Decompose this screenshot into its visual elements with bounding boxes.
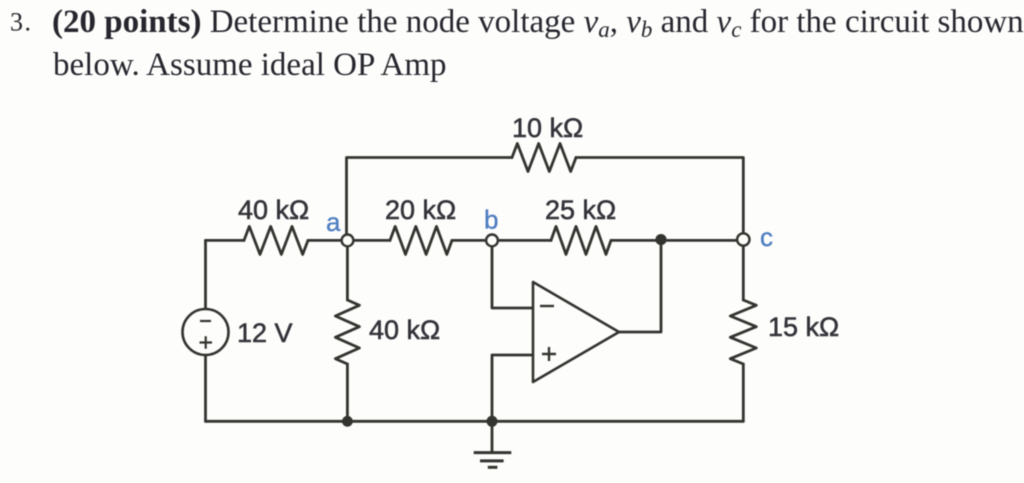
op-amp plus input sign: [542, 347, 556, 361]
wire 20k to 25k: [452, 239, 551, 242]
wire bottom rail: [206, 420, 744, 423]
svg-text:10 kΩ: 10 kΩ: [512, 113, 583, 143]
resistor R 15k vertical zigzag: [730, 300, 756, 364]
wire node a branch down: [346, 240, 349, 300]
junction dot (output / c row): [655, 234, 666, 245]
node c open circle: [737, 233, 749, 245]
wire op-amp plus input to ground rail: [492, 355, 533, 421]
resistor R 40k vertical zigzag: [335, 300, 359, 364]
wire node b down to op-amp minus input: [492, 240, 533, 308]
op-amp U1 triangle: [533, 282, 619, 382]
svg-text:c: c: [760, 222, 773, 252]
svg-text:15 kΩ: 15 kΩ: [768, 312, 839, 342]
wire right rail bottom: [742, 364, 745, 421]
svg-text:(20 points) Determine the node: (20 points) Determine the node voltage v…: [52, 4, 1024, 42]
wire main row left segment: [206, 239, 245, 242]
voltage source minus sign: [200, 320, 211, 322]
junction dot (node a bottom): [342, 416, 353, 427]
wire top loop with resistor 10k gap: [347, 158, 513, 241]
wire top right + right rail down to 15k: [576, 158, 743, 301]
wire a to 20k: [308, 239, 390, 242]
svg-text:40 kΩ: 40 kΩ: [238, 195, 309, 225]
svg-text:12 V: 12 V: [237, 318, 293, 348]
node b open circle: [486, 235, 498, 247]
resistor R 10k zigzag: [512, 144, 576, 172]
resistor R 25k zigzag: [551, 226, 611, 254]
resistor R 20k zigzag: [390, 226, 452, 254]
ground stem: [491, 421, 494, 452]
voltage source V1 12V circle: [183, 309, 229, 355]
svg-text:40 kΩ: 40 kΩ: [369, 315, 440, 345]
svg-text:a: a: [326, 207, 341, 237]
svg-text:b: b: [484, 205, 498, 235]
svg-text:20 kΩ: 20 kΩ: [385, 195, 456, 225]
ground symbol: [474, 453, 512, 468]
junction dot (ground bottom): [487, 416, 498, 427]
svg-text:below. Assume ideal OP Amp: below. Assume ideal OP Amp: [53, 47, 447, 83]
op-amp minus input sign: [540, 305, 554, 307]
voltage source plus sign: [200, 336, 213, 349]
wire 25k to node c: [611, 239, 738, 242]
svg-text:3.: 3.: [10, 8, 33, 37]
wire op-amp output: [619, 240, 661, 332]
svg-text:25 kΩ: 25 kΩ: [545, 195, 616, 225]
resistor R 40k left zigzag: [244, 226, 308, 254]
node a open circle: [342, 235, 354, 247]
wire 40k vertical to bottom: [346, 364, 349, 421]
wire left rail (through source): [204, 240, 207, 421]
